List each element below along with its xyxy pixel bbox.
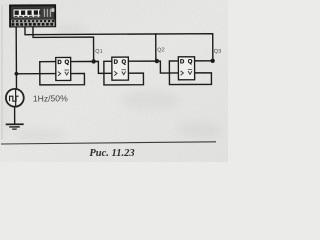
svg-text:Q3: Q3	[214, 49, 221, 55]
svg-text:Q1: Q1	[95, 49, 102, 55]
svg-text:D: D	[57, 60, 62, 66]
svg-text:Q: Q	[121, 60, 126, 66]
svg-text:Q: Q	[64, 60, 69, 66]
svg-text:D: D	[114, 60, 119, 66]
svg-text:D: D	[180, 59, 185, 65]
svg-text:Q: Q	[188, 59, 193, 65]
svg-text:Q2: Q2	[157, 47, 164, 53]
svg-text:Рис. 11.23: Рис. 11.23	[89, 148, 134, 159]
svg-text:1Hz/50%: 1Hz/50%	[33, 93, 68, 103]
